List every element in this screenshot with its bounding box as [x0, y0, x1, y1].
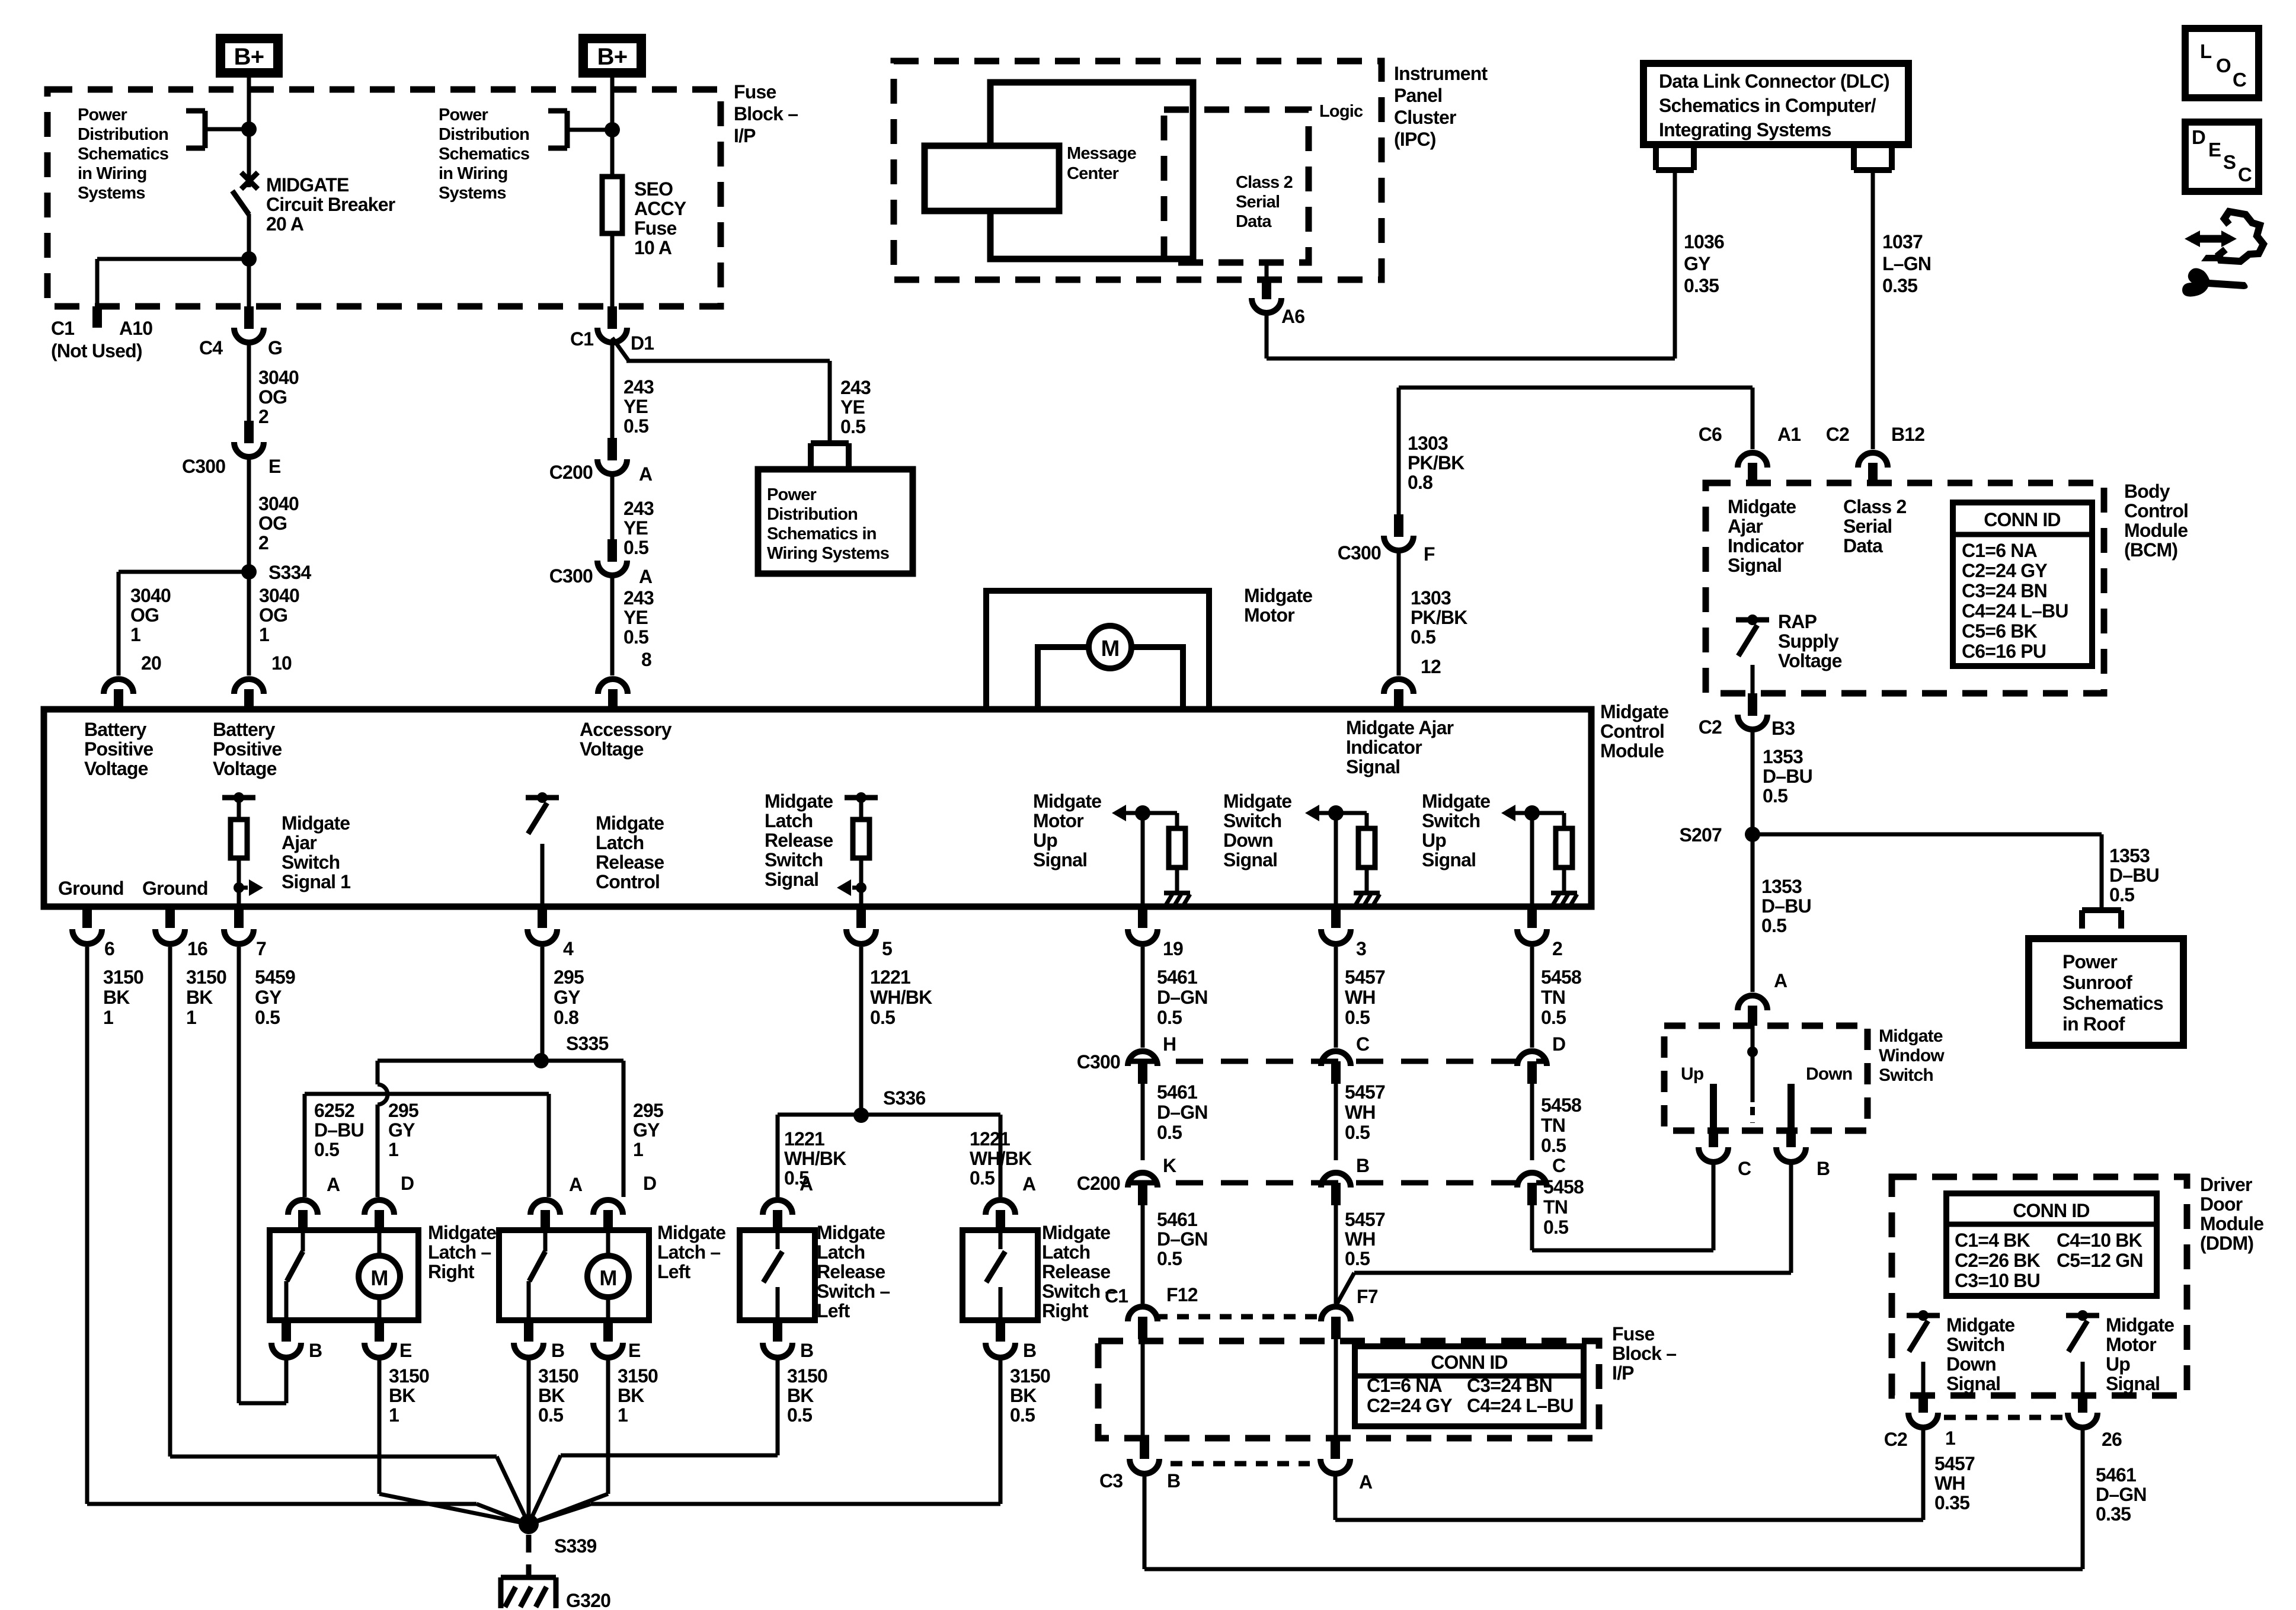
svg-text:3150: 3150	[618, 1365, 658, 1387]
svg-text:Systems: Systems	[78, 184, 145, 203]
svg-text:Up: Up	[2106, 1353, 2130, 1375]
svg-text:Control: Control	[2124, 500, 2188, 521]
svg-text:0.5: 0.5	[1761, 915, 1786, 936]
svg-text:C4: C4	[199, 337, 223, 359]
svg-text:WH/BK: WH/BK	[970, 1148, 1032, 1169]
svg-text:E: E	[2208, 139, 2221, 161]
svg-text:D–GN: D–GN	[2096, 1484, 2147, 1505]
svg-text:0.5: 0.5	[623, 537, 648, 558]
svg-text:C3=24 BN: C3=24 BN	[1962, 580, 2047, 601]
svg-text:Right: Right	[428, 1261, 475, 1282]
svg-text:5457: 5457	[1345, 966, 1385, 988]
svg-text:5459: 5459	[255, 966, 295, 988]
svg-text:Schematics in: Schematics in	[767, 524, 877, 543]
svg-text:Schematics: Schematics	[2062, 993, 2163, 1014]
svg-text:Serial: Serial	[1236, 193, 1280, 212]
svg-text:M: M	[599, 1266, 616, 1290]
svg-text:0.35: 0.35	[2096, 1503, 2131, 1525]
svg-text:C6=16 PU: C6=16 PU	[1962, 641, 2046, 662]
svg-text:1: 1	[130, 624, 140, 645]
svg-text:1353: 1353	[2109, 845, 2150, 866]
svg-text:F12: F12	[1166, 1284, 1198, 1305]
svg-text:0.5: 0.5	[840, 416, 865, 437]
svg-text:Signal: Signal	[765, 869, 818, 890]
svg-text:OG: OG	[258, 386, 287, 408]
svg-text:Wiring Systems: Wiring Systems	[767, 544, 889, 563]
svg-text:B12: B12	[1891, 424, 1924, 445]
svg-text:OG: OG	[130, 604, 159, 626]
svg-text:Switch: Switch	[1223, 810, 1281, 831]
svg-text:Motor: Motor	[1033, 810, 1083, 831]
svg-text:Midgate: Midgate	[1244, 585, 1312, 606]
svg-text:O: O	[2216, 55, 2231, 76]
svg-text:295: 295	[388, 1100, 418, 1121]
svg-text:1353: 1353	[1761, 876, 1802, 897]
svg-text:S336: S336	[883, 1087, 926, 1109]
svg-text:Positive: Positive	[213, 738, 282, 760]
svg-text:Schematics in Computer/: Schematics in Computer/	[1659, 95, 1876, 116]
svg-text:C1=6 NA: C1=6 NA	[1367, 1375, 1443, 1396]
svg-text:B: B	[1023, 1340, 1036, 1361]
svg-text:E: E	[399, 1340, 412, 1361]
svg-text:0.5: 0.5	[1763, 785, 1787, 806]
svg-text:Power: Power	[2062, 951, 2117, 972]
svg-text:0.5: 0.5	[1345, 1122, 1370, 1143]
svg-text:20: 20	[141, 652, 161, 674]
svg-text:(IPC): (IPC)	[1394, 129, 1436, 150]
svg-text:Module: Module	[2124, 520, 2188, 541]
svg-text:295: 295	[554, 966, 584, 988]
svg-text:D–BU: D–BU	[314, 1119, 364, 1141]
svg-text:YE: YE	[623, 396, 648, 417]
svg-text:(DDM): (DDM)	[2200, 1233, 2253, 1254]
svg-text:Switch: Switch	[765, 849, 823, 870]
svg-text:A10: A10	[119, 318, 152, 339]
svg-text:YE: YE	[623, 517, 648, 539]
svg-text:Power: Power	[767, 485, 817, 504]
svg-text:CONN ID: CONN ID	[2013, 1200, 2090, 1221]
svg-text:C: C	[2238, 164, 2252, 185]
svg-text:Voltage: Voltage	[213, 758, 277, 779]
svg-text:5461: 5461	[1157, 1209, 1197, 1230]
svg-text:ACCY: ACCY	[634, 198, 686, 219]
svg-text:C1: C1	[1105, 1285, 1128, 1307]
svg-text:Voltage: Voltage	[580, 738, 644, 760]
svg-text:0.5: 0.5	[1157, 1248, 1182, 1269]
svg-text:0.5: 0.5	[787, 1404, 812, 1426]
svg-text:F: F	[1424, 543, 1435, 565]
svg-text:Left: Left	[657, 1261, 691, 1282]
svg-text:YE: YE	[840, 396, 865, 418]
svg-text:Signal: Signal	[1223, 849, 1277, 870]
svg-text:Integrating Systems: Integrating Systems	[1659, 119, 1831, 140]
svg-text:Latch: Latch	[596, 832, 644, 853]
svg-text:0.5: 0.5	[970, 1167, 994, 1189]
svg-text:CONN ID: CONN ID	[1984, 509, 2061, 530]
svg-text:295: 295	[633, 1100, 663, 1121]
svg-text:0.5: 0.5	[255, 1007, 280, 1028]
svg-text:BK: BK	[103, 987, 130, 1008]
svg-text:D: D	[2192, 126, 2205, 148]
svg-text:1: 1	[1945, 1427, 1955, 1449]
svg-text:M: M	[1101, 636, 1120, 661]
svg-text:C2=24 GY: C2=24 GY	[1367, 1395, 1452, 1416]
svg-text:Window: Window	[1879, 1046, 1945, 1065]
svg-text:Battery: Battery	[213, 719, 276, 740]
svg-text:Fuse: Fuse	[734, 81, 776, 103]
svg-text:G320: G320	[566, 1590, 610, 1610]
svg-text:Up: Up	[1681, 1064, 1704, 1084]
svg-text:Voltage: Voltage	[84, 758, 148, 779]
svg-text:1303: 1303	[1411, 587, 1451, 609]
svg-text:C1=6 NA: C1=6 NA	[1962, 540, 2038, 561]
svg-text:C1: C1	[51, 318, 74, 339]
svg-text:Midgate: Midgate	[428, 1222, 496, 1243]
svg-text:Indicator: Indicator	[1346, 737, 1422, 758]
svg-text:TN: TN	[1541, 987, 1565, 1008]
svg-text:WH: WH	[1345, 1102, 1376, 1123]
svg-text:A: A	[639, 463, 653, 485]
svg-text:1036: 1036	[1684, 231, 1724, 252]
svg-text:0.5: 0.5	[2109, 884, 2134, 905]
svg-text:C3: C3	[1099, 1470, 1123, 1491]
svg-text:0.8: 0.8	[1408, 472, 1432, 493]
svg-text:1: 1	[633, 1139, 643, 1160]
svg-text:Class 2: Class 2	[1843, 496, 1906, 517]
svg-text:1221: 1221	[970, 1128, 1010, 1150]
svg-text:A: A	[1359, 1471, 1373, 1493]
svg-text:WH: WH	[1345, 1228, 1376, 1250]
svg-text:Center: Center	[1067, 164, 1119, 183]
svg-text:I/P: I/P	[734, 125, 756, 146]
svg-text:Midgate: Midgate	[817, 1222, 885, 1243]
svg-text:Driver: Driver	[2200, 1174, 2252, 1195]
svg-text:Panel: Panel	[1394, 85, 1442, 106]
svg-text:S: S	[2223, 151, 2236, 173]
svg-text:C2: C2	[1826, 424, 1849, 445]
svg-text:Schematics: Schematics	[439, 145, 529, 164]
svg-text:C2: C2	[1699, 716, 1722, 738]
svg-text:A6: A6	[1281, 306, 1304, 327]
svg-text:Latch –: Latch –	[657, 1241, 720, 1263]
svg-text:6252: 6252	[314, 1100, 354, 1121]
svg-text:Midgate Ajar: Midgate Ajar	[1346, 717, 1454, 738]
svg-text:Release: Release	[765, 830, 833, 851]
svg-text:Midgate: Midgate	[1600, 701, 1668, 722]
svg-text:Release: Release	[1042, 1261, 1110, 1282]
svg-text:D–GN: D–GN	[1157, 987, 1208, 1008]
svg-text:B: B	[551, 1340, 564, 1361]
svg-text:Control: Control	[1600, 721, 1664, 742]
svg-text:B: B	[1817, 1158, 1830, 1179]
svg-text:Latch –: Latch –	[428, 1241, 491, 1263]
svg-text:20 A: 20 A	[266, 213, 304, 235]
svg-text:F7: F7	[1357, 1286, 1378, 1307]
svg-text:1: 1	[388, 1139, 398, 1160]
svg-text:Control: Control	[596, 871, 660, 892]
svg-text:B: B	[800, 1340, 813, 1361]
svg-text:A: A	[639, 566, 653, 587]
svg-text:BK: BK	[538, 1385, 565, 1406]
svg-text:Release: Release	[817, 1261, 885, 1282]
svg-text:C2=24 GY: C2=24 GY	[1962, 560, 2047, 581]
svg-text:YE: YE	[623, 607, 648, 628]
svg-text:Block –: Block –	[734, 103, 798, 124]
svg-text:Up: Up	[1422, 830, 1446, 851]
svg-text:C300: C300	[182, 456, 225, 477]
svg-text:243: 243	[623, 498, 654, 519]
svg-text:Down: Down	[1806, 1064, 1852, 1084]
svg-text:A1: A1	[1777, 424, 1801, 445]
svg-text:0.5: 0.5	[623, 626, 648, 648]
svg-text:Left: Left	[817, 1300, 850, 1321]
svg-text:Switch: Switch	[1879, 1065, 1933, 1085]
svg-text:5457: 5457	[1345, 1209, 1385, 1230]
svg-text:Data Link Connector (DLC): Data Link Connector (DLC)	[1659, 71, 1889, 92]
svg-text:BK: BK	[618, 1385, 644, 1406]
svg-text:Latch: Latch	[1042, 1241, 1090, 1263]
svg-text:0.35: 0.35	[1684, 275, 1719, 296]
svg-text:1: 1	[618, 1404, 628, 1426]
svg-text:0.5: 0.5	[1541, 1135, 1566, 1156]
svg-text:Power: Power	[78, 105, 127, 124]
svg-text:Midgate: Midgate	[2106, 1314, 2174, 1336]
svg-text:OG: OG	[259, 604, 287, 626]
svg-text:C6: C6	[1699, 424, 1722, 445]
svg-text:C4=10 BK: C4=10 BK	[2057, 1230, 2142, 1251]
svg-text:D: D	[401, 1173, 414, 1194]
svg-text:0.5: 0.5	[1157, 1122, 1182, 1143]
svg-text:1: 1	[259, 624, 269, 645]
svg-text:3040: 3040	[258, 367, 299, 388]
svg-text:Signal: Signal	[2106, 1373, 2160, 1394]
svg-text:Distribution: Distribution	[767, 505, 858, 524]
svg-text:0.8: 0.8	[554, 1007, 578, 1028]
svg-text:BK: BK	[787, 1385, 814, 1406]
svg-text:Supply: Supply	[1778, 630, 1839, 652]
svg-text:Block –: Block –	[1612, 1343, 1676, 1364]
svg-text:0.5: 0.5	[1010, 1404, 1035, 1426]
svg-text:B: B	[1356, 1155, 1369, 1176]
svg-text:Midgate: Midgate	[1223, 790, 1291, 812]
svg-text:1221: 1221	[870, 966, 910, 988]
svg-text:Switch: Switch	[1422, 810, 1480, 831]
svg-text:G: G	[268, 337, 282, 359]
svg-text:Accessory: Accessory	[580, 719, 672, 740]
svg-text:C3=24 BN: C3=24 BN	[1467, 1375, 1552, 1396]
svg-text:GY: GY	[255, 987, 282, 1008]
svg-text:3040: 3040	[258, 493, 299, 514]
svg-text:PK/BK: PK/BK	[1411, 607, 1467, 628]
svg-text:26: 26	[2102, 1429, 2122, 1450]
svg-text:Midgate: Midgate	[1879, 1026, 1943, 1046]
svg-text:C: C	[1356, 1033, 1370, 1055]
svg-text:TN: TN	[1543, 1196, 1568, 1218]
svg-text:Serial: Serial	[1843, 516, 1892, 537]
svg-text:0.5: 0.5	[623, 415, 648, 437]
svg-text:Latch: Latch	[817, 1241, 865, 1263]
svg-text:WH/BK: WH/BK	[784, 1148, 846, 1169]
svg-text:C3=10 BU: C3=10 BU	[1955, 1270, 2040, 1291]
svg-text:Down: Down	[1223, 830, 1273, 851]
svg-text:8: 8	[641, 649, 651, 670]
svg-text:D: D	[1552, 1033, 1565, 1055]
svg-text:in Wiring: in Wiring	[78, 164, 147, 183]
svg-text:GY: GY	[554, 987, 580, 1008]
svg-text:1303: 1303	[1408, 433, 1448, 454]
svg-text:Module: Module	[1600, 740, 1664, 761]
svg-text:Schematics: Schematics	[78, 145, 168, 164]
svg-text:5461: 5461	[1157, 1081, 1197, 1103]
svg-text:1353: 1353	[1763, 746, 1803, 767]
svg-text:C300: C300	[549, 565, 593, 587]
svg-text:E: E	[268, 456, 281, 477]
svg-text:Ajar: Ajar	[282, 832, 316, 853]
svg-text:B: B	[309, 1340, 322, 1361]
svg-text:Battery: Battery	[84, 719, 147, 740]
svg-text:1: 1	[389, 1404, 399, 1426]
svg-text:OG: OG	[258, 513, 287, 534]
svg-text:7: 7	[256, 938, 266, 959]
svg-text:GY: GY	[1684, 253, 1710, 274]
svg-text:Door: Door	[2200, 1193, 2243, 1215]
svg-text:2: 2	[1552, 938, 1562, 959]
svg-text:5458: 5458	[1541, 1094, 1581, 1116]
svg-text:in Wiring: in Wiring	[439, 164, 508, 183]
svg-text:M: M	[370, 1266, 388, 1290]
svg-text:E: E	[628, 1340, 641, 1361]
svg-text:C1: C1	[570, 328, 593, 350]
svg-text:Signal: Signal	[1346, 756, 1400, 777]
svg-text:Down: Down	[1946, 1353, 1996, 1375]
svg-text:D–BU: D–BU	[1761, 895, 1811, 917]
svg-text:Signal: Signal	[1033, 849, 1087, 870]
svg-text:Midgate: Midgate	[1033, 790, 1101, 812]
svg-text:WH: WH	[1345, 987, 1376, 1008]
svg-text:C: C	[2233, 69, 2246, 91]
svg-text:Up: Up	[1033, 830, 1057, 851]
svg-text:2: 2	[258, 532, 268, 553]
svg-text:3150: 3150	[787, 1365, 827, 1387]
svg-text:Fuse: Fuse	[634, 217, 677, 239]
svg-text:Data: Data	[1843, 535, 1883, 556]
svg-text:C: C	[1552, 1155, 1566, 1176]
svg-text:Logic: Logic	[1319, 102, 1363, 121]
svg-text:5458: 5458	[1541, 966, 1581, 988]
svg-text:0.5: 0.5	[1345, 1007, 1370, 1028]
svg-text:0.35: 0.35	[1934, 1492, 1969, 1513]
svg-text:I/P: I/P	[1612, 1362, 1634, 1384]
svg-text:3150: 3150	[538, 1365, 578, 1387]
svg-text:A: A	[1022, 1173, 1036, 1195]
svg-text:D–GN: D–GN	[1157, 1102, 1208, 1123]
svg-text:1: 1	[186, 1007, 196, 1028]
svg-text:D–GN: D–GN	[1157, 1228, 1208, 1250]
svg-text:Positive: Positive	[84, 738, 153, 760]
svg-text:BK: BK	[186, 987, 213, 1008]
svg-text:C300: C300	[1077, 1051, 1120, 1073]
svg-text:5461: 5461	[2096, 1464, 2136, 1486]
svg-text:0.5: 0.5	[1345, 1248, 1370, 1269]
svg-text:GY: GY	[388, 1119, 415, 1141]
svg-text:GY: GY	[633, 1119, 660, 1141]
svg-text:Power: Power	[439, 105, 488, 124]
svg-text:1221: 1221	[784, 1128, 824, 1150]
svg-text:SEO: SEO	[634, 178, 673, 200]
svg-text:Signal: Signal	[1422, 849, 1476, 870]
svg-text:5458: 5458	[1543, 1176, 1584, 1198]
svg-text:Midgate: Midgate	[1042, 1222, 1110, 1243]
svg-text:Switch: Switch	[1946, 1334, 2004, 1355]
svg-text:S207: S207	[1679, 824, 1722, 846]
svg-text:B3: B3	[1771, 718, 1795, 739]
svg-text:Switch –: Switch –	[1042, 1281, 1115, 1302]
svg-text:243: 243	[623, 587, 654, 609]
svg-text:Midgate: Midgate	[657, 1222, 725, 1243]
svg-text:0.5: 0.5	[314, 1139, 339, 1160]
svg-text:Midgate: Midgate	[1946, 1314, 2014, 1336]
svg-text:Voltage: Voltage	[1778, 650, 1842, 671]
svg-text:Body: Body	[2124, 481, 2170, 502]
svg-text:Signal: Signal	[1946, 1373, 2000, 1394]
svg-text:6: 6	[104, 938, 114, 959]
svg-text:1037: 1037	[1882, 231, 1923, 252]
svg-text:Midgate: Midgate	[765, 790, 833, 812]
svg-text:Circuit Breaker: Circuit Breaker	[266, 194, 395, 215]
svg-text:CONN ID: CONN ID	[1431, 1352, 1508, 1373]
svg-text:Latch: Latch	[765, 810, 813, 831]
svg-text:Ground: Ground	[142, 878, 208, 899]
svg-text:MIDGATE: MIDGATE	[266, 174, 349, 196]
svg-text:A: A	[327, 1174, 340, 1195]
svg-text:Midgate: Midgate	[596, 812, 664, 834]
svg-text:Midgate: Midgate	[282, 812, 350, 834]
svg-text:C1=4 BK: C1=4 BK	[1955, 1230, 2030, 1251]
svg-text:H: H	[1163, 1033, 1176, 1055]
svg-text:5457: 5457	[1345, 1081, 1385, 1103]
svg-text:Right: Right	[1042, 1300, 1089, 1321]
svg-text:A: A	[800, 1173, 813, 1195]
svg-text:RAP: RAP	[1778, 611, 1817, 632]
svg-text:0.5: 0.5	[1157, 1007, 1182, 1028]
svg-text:C2=26 BK: C2=26 BK	[1955, 1250, 2041, 1271]
svg-text:Midgate: Midgate	[1728, 496, 1796, 517]
svg-text:Distribution: Distribution	[439, 125, 529, 144]
svg-text:3040: 3040	[130, 585, 171, 606]
svg-text:1: 1	[103, 1007, 113, 1028]
svg-text:Systems: Systems	[439, 184, 506, 203]
svg-text:Data: Data	[1236, 212, 1272, 231]
svg-text:0.5: 0.5	[1543, 1217, 1568, 1238]
svg-text:0.5: 0.5	[1411, 626, 1435, 648]
svg-text:Motor: Motor	[1244, 604, 1294, 626]
svg-text:Module: Module	[2200, 1213, 2263, 1234]
svg-text:5461: 5461	[1157, 966, 1197, 988]
svg-text:5457: 5457	[1934, 1453, 1975, 1474]
svg-text:0.5: 0.5	[870, 1007, 895, 1028]
svg-text:TN: TN	[1541, 1115, 1565, 1136]
svg-text:Cluster: Cluster	[1394, 107, 1456, 128]
svg-text:Distribution: Distribution	[78, 125, 168, 144]
svg-text:in Roof: in Roof	[2062, 1013, 2125, 1035]
svg-text:Indicator: Indicator	[1728, 535, 1803, 556]
svg-text:B+: B+	[234, 44, 264, 70]
svg-text:Signal 1: Signal 1	[282, 871, 350, 892]
svg-text:2: 2	[258, 406, 268, 427]
svg-text:WH/BK: WH/BK	[870, 987, 932, 1008]
svg-text:3040: 3040	[259, 585, 299, 606]
svg-text:C4=24 L–BU: C4=24 L–BU	[1467, 1395, 1574, 1416]
